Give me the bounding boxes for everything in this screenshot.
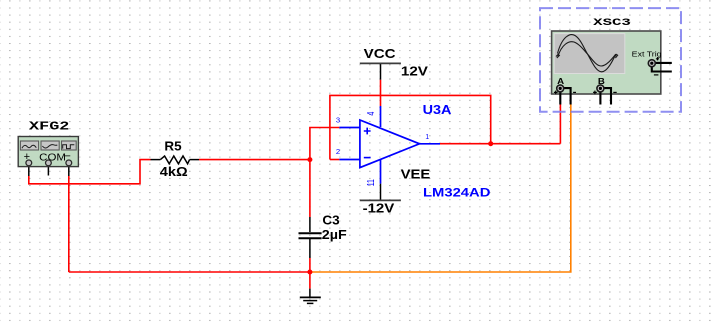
svg-text:4kΩ: 4kΩ xyxy=(160,165,188,179)
svg-text:2µF: 2µF xyxy=(322,228,347,242)
svg-text:4: 4 xyxy=(364,111,376,115)
svg-text:12V: 12V xyxy=(401,65,429,79)
svg-text:R5: R5 xyxy=(164,140,181,154)
svg-text:Ext Trig: Ext Trig xyxy=(632,49,662,58)
svg-text:-12V: -12V xyxy=(363,201,395,215)
svg-text:VCC: VCC xyxy=(364,47,396,61)
svg-text:3: 3 xyxy=(336,118,340,125)
svg-text:1: 1 xyxy=(425,134,429,141)
svg-text:11: 11 xyxy=(364,179,376,186)
svg-text:XSC3: XSC3 xyxy=(593,18,631,29)
svg-text:C3: C3 xyxy=(322,213,339,227)
svg-text:2: 2 xyxy=(336,149,340,156)
svg-text:LM324AD: LM324AD xyxy=(423,185,490,199)
svg-text:XFG2: XFG2 xyxy=(29,120,69,134)
svg-text:VEE: VEE xyxy=(401,167,431,181)
svg-text:U3A: U3A xyxy=(423,103,452,117)
svg-text:COM: COM xyxy=(39,153,66,164)
